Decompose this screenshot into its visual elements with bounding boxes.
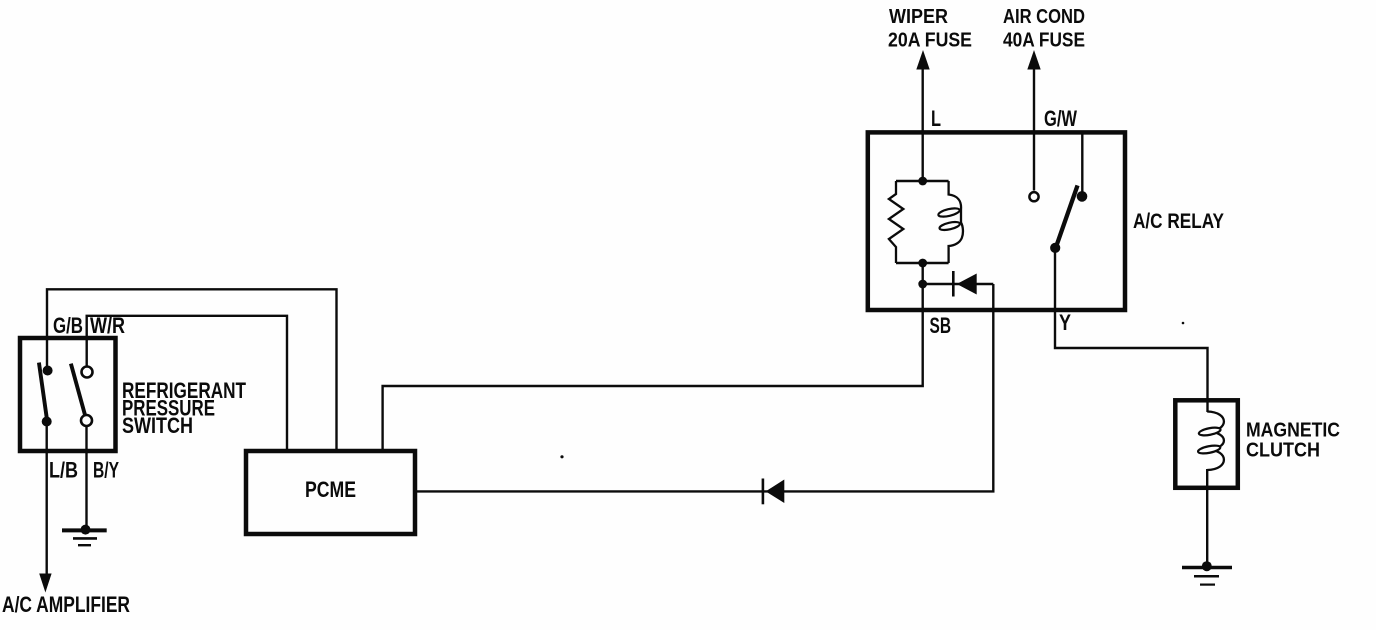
svg-text:L/B: L/B xyxy=(49,458,78,483)
svg-text:A/C RELAY: A/C RELAY xyxy=(1133,209,1224,233)
svg-text:L: L xyxy=(931,106,941,131)
svg-text:G/W: G/W xyxy=(1044,106,1077,131)
svg-text:AIR COND: AIR COND xyxy=(1003,5,1085,28)
svg-text:20A FUSE: 20A FUSE xyxy=(888,29,972,52)
svg-text:G/B: G/B xyxy=(53,313,83,338)
svg-text:40A FUSE: 40A FUSE xyxy=(1003,29,1085,52)
svg-text:SWITCH: SWITCH xyxy=(122,413,193,438)
svg-text:A/C AMPLIFIER: A/C AMPLIFIER xyxy=(2,592,130,617)
svg-text:WIPER: WIPER xyxy=(889,5,948,28)
svg-text:B/Y: B/Y xyxy=(93,458,119,483)
svg-text:PCME: PCME xyxy=(305,477,356,502)
svg-text:CLUTCH: CLUTCH xyxy=(1246,439,1320,462)
svg-text:W/R: W/R xyxy=(90,313,125,338)
svg-text:SB: SB xyxy=(930,313,952,338)
svg-text:Y: Y xyxy=(1059,310,1071,335)
